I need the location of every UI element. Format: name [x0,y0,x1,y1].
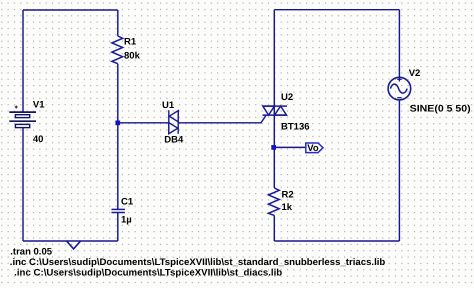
wire bottom-left [23,240,118,242]
wire node B to flag [274,146,306,148]
wire R1 top lead [117,10,119,36]
svg-text:80k: 80k [124,51,141,62]
resistor R2 [268,188,279,215]
node Vo flag [306,143,323,153]
wire R1 bottom to C1 [117,64,119,210]
wire diac to triac gate [178,115,266,123]
wire R2 bottom lead [273,215,275,241]
wire R2 top lead [273,147,275,188]
wire V2 top lead [398,10,400,78]
svg-text:BT136: BT136 [281,121,310,132]
wire V2 bottom lead [398,100,400,241]
wire C1 bottom lead [117,212,119,241]
wire top-left loop [23,9,118,11]
wire node A to diac [118,122,169,124]
svg-text:U1: U1 [162,100,175,111]
svg-text:R1: R1 [124,36,137,47]
svg-text:1k: 1k [282,202,293,213]
node B junction [271,145,276,150]
diac U1 [169,110,178,134]
ground [67,241,81,249]
wire top-right loop [274,9,399,11]
svg-text:R2: R2 [282,190,294,201]
svg-text:SINE(0 5 50): SINE(0 5 50) [410,104,471,115]
resistor R1 [112,36,123,64]
battery V1 [9,112,36,128]
svg-text:V1: V1 [33,100,45,111]
wire V1 top lead [22,10,24,112]
triac U2 [263,106,288,115]
svg-text:DB4: DB4 [164,135,184,146]
capacitor C1 [112,209,125,212]
svg-text:.tran 0.05: .tran 0.05 [10,246,52,257]
svg-text:1µ: 1µ [121,214,132,225]
svg-text:V2: V2 [409,68,421,79]
voltage source V2 [388,77,411,100]
node A junction [115,121,120,126]
svg-text:U2: U2 [281,92,293,103]
svg-text:40: 40 [33,134,44,145]
wire triac main vertical [273,10,275,146]
svg-text:.inc C:\Users\sudip\Documents\: .inc C:\Users\sudip\Documents\LTspiceXVI… [14,267,282,278]
svg-text:Vo: Vo [307,143,319,154]
wire V1 bottom lead [22,128,24,241]
wire bottom-right [274,240,399,242]
svg-text:.inc C:\Users\sudip\Documents\: .inc C:\Users\sudip\Documents\LTspiceXVI… [10,257,386,268]
svg-text:C1: C1 [121,197,134,208]
